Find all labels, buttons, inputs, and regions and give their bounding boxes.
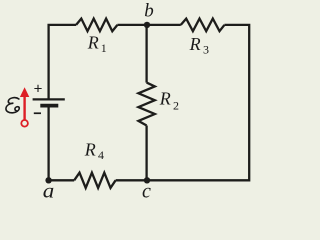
EMF direction arrow (red) — [20, 87, 29, 126]
wire node b to R2 — [145, 25, 147, 83]
svg-text:3: 3 — [203, 43, 209, 57]
wire R2 to node c — [145, 126, 147, 181]
svg-text:R: R — [87, 32, 99, 52]
EMF script-E label — [5, 98, 20, 113]
svg-text:R: R — [189, 34, 201, 54]
node b — [144, 1, 154, 28]
battery EMF source: long positive plate — [33, 98, 65, 100]
wire R3 to top-right corner, right side, to bottom-right corner — [116, 25, 250, 180]
node c — [142, 177, 151, 202]
svg-text:1: 1 — [101, 41, 107, 55]
wire top-left segment — [49, 25, 77, 99]
svg-text:a: a — [43, 181, 55, 203]
wire node a up to battery — [47, 106, 49, 181]
resistor R4 — [74, 139, 115, 188]
node a — [43, 177, 55, 203]
battery minus label — [34, 112, 41, 114]
svg-text:R: R — [84, 139, 96, 159]
resistor R2 — [138, 83, 179, 126]
battery EMF source: short thick negative plate — [40, 104, 58, 108]
svg-text:b: b — [144, 1, 154, 22]
wire R4 to node a — [49, 179, 75, 181]
wire R1 to node b — [117, 24, 180, 26]
svg-text:+: + — [34, 81, 43, 98]
svg-text:R: R — [159, 89, 171, 109]
svg-text:4: 4 — [98, 148, 104, 162]
svg-text:2: 2 — [173, 98, 179, 112]
resistor R1 — [76, 19, 117, 55]
svg-text:c: c — [142, 181, 151, 203]
resistor R3 — [181, 19, 225, 57]
